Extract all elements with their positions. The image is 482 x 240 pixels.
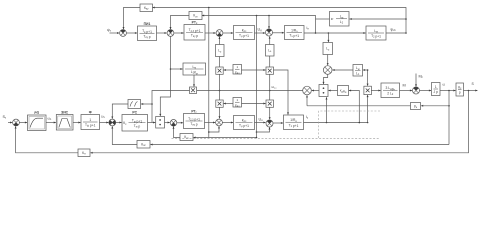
svg-text:Тм p: Тм p <box>134 124 141 129</box>
block Kot1 current sensor gain <box>189 12 202 20</box>
svg-text:ψ2х: ψ2х <box>391 28 397 33</box>
block KdRy gain <box>338 86 349 96</box>
wire X3 east branch down into R2 top <box>274 70 290 115</box>
block inverse Evc lower <box>233 98 242 108</box>
wire X3 down across omega line to X4 <box>269 74 271 100</box>
wire X1 down across omega line to X2 <box>219 74 221 100</box>
wire M line into torque sum <box>400 90 413 92</box>
block inverse Evc upper <box>233 65 242 75</box>
wire speed feedback line into Kos <box>150 144 449 146</box>
svg-text:1: 1 <box>89 118 91 122</box>
block Kpch1 converter x <box>234 26 255 40</box>
block torque constant 3Lm pn over 2L2 <box>381 83 400 98</box>
svg-text:Тиу p: Тиу p <box>190 122 197 127</box>
wire Evc1 east into X3 <box>242 69 266 71</box>
svg-text:РТг: РТг <box>191 110 196 115</box>
multiplier block X4 <box>266 100 274 107</box>
svg-text:ЗИС: ЗИС <box>61 111 69 115</box>
wire branch into L4 bottom <box>208 126 220 133</box>
svg-text:РС: РС <box>132 111 137 115</box>
block Ktg position sensor gain <box>78 149 90 157</box>
svg-text:ψз: ψз <box>107 28 111 33</box>
block RP position regulator <box>28 111 47 131</box>
wire omega riser into Ml bottom <box>306 95 308 106</box>
wire ML output down into X5 top <box>193 75 195 87</box>
multiplier block X3 <box>266 67 274 74</box>
wire omega tap down into pn block riser <box>448 91 450 145</box>
block PI1 flux regulator <box>138 22 157 41</box>
block Kiu flux sensor gain <box>140 4 153 12</box>
summing junction M torque <box>413 87 420 94</box>
block Kos speed sensor gain <box>137 141 150 149</box>
svg-text:Тв p+1: Тв p+1 <box>142 29 152 34</box>
svg-text:Uд: Uд <box>258 28 263 33</box>
wire Evc1 west into X1 <box>224 69 233 71</box>
multiplier block X1 <box>216 67 223 74</box>
wire pn output west along omega-e line <box>307 105 411 107</box>
wire R2 output i_y line <box>304 122 369 124</box>
multiplier circle Mu <box>323 66 332 75</box>
wire S1 to PI1 <box>126 32 137 34</box>
summing junction S3 emf comp x <box>216 30 223 37</box>
block RT1 current x regulator <box>184 21 205 41</box>
svg-text:1: 1 <box>435 85 437 89</box>
svg-text:Sз: Sз <box>3 115 7 120</box>
summing junction L5 voltage y <box>266 120 273 127</box>
wire RT2 to L4 <box>205 122 216 124</box>
svg-text:Тм p+1: Тм p+1 <box>132 119 142 124</box>
wire omega to Kp block <box>440 90 456 92</box>
block J inertia integrator <box>432 83 441 96</box>
wire Le2 up into S4 bottom <box>269 36 271 44</box>
multiplier block X2 <box>216 100 223 107</box>
svg-text:Т1 p+1: Т1 p+1 <box>289 123 299 128</box>
divider block Du <box>319 85 328 97</box>
wire D2 to L3 <box>165 122 170 124</box>
wire ix feedback line into Kot1 <box>202 15 316 34</box>
svg-text:2 L2: 2 L2 <box>387 91 394 96</box>
svg-text:Тиу p: Тиу p <box>191 33 198 38</box>
block ZIS intensity setter <box>56 111 73 131</box>
block kr Lm over L2 <box>330 12 350 27</box>
wire Le1 up into S3 bottom <box>219 37 221 45</box>
wire RP to ZIS <box>46 122 56 124</box>
wire RS to divider D2 <box>148 122 156 124</box>
wire S2 bottom down to divider D2 top <box>159 36 171 116</box>
wire iy branch up into divider Du bottom <box>326 97 328 122</box>
block speed limiter above RS <box>128 100 141 109</box>
wire Le3 to multiplier Mu top <box>327 55 329 66</box>
multiplier block Xm torque <box>364 86 372 94</box>
wire Evc2 east into X4 <box>242 103 266 105</box>
svg-text:РП: РП <box>34 111 39 115</box>
wire Kot2 input line from riser 256 <box>193 137 256 139</box>
wire Kot1 output into S2 top <box>170 16 190 30</box>
wire omega line west from Ml to multiplier X5 <box>197 90 303 92</box>
summing junction L4 emf comp y <box>216 119 223 126</box>
wire tap into limiter block <box>141 103 152 105</box>
wire iy riser into KdRy <box>349 90 359 124</box>
wire Ktg output into L1 bottom <box>15 126 78 153</box>
block pn pole pairs <box>411 103 421 110</box>
wire branch into L5 bottom <box>256 127 271 133</box>
svg-text:ωз: ωз <box>101 115 105 120</box>
wire long riser from current fb line <box>256 16 258 139</box>
block ML Lm over L2Km <box>183 63 206 75</box>
block Le2 leakage inductance y <box>266 45 275 57</box>
svg-text:М: М <box>403 84 406 88</box>
wire Sz input <box>8 122 12 124</box>
block Le3 leakage inductance <box>323 43 333 55</box>
wire Kpch1 to S4 with Ud label <box>255 32 266 34</box>
wire F to L2 <box>100 122 109 124</box>
wire Mu output into divider Du top <box>323 74 328 84</box>
wire R1 output i_x line to T2 block <box>304 32 366 34</box>
wire L2 to RS <box>116 122 122 124</box>
wire KdRy output into Du <box>328 90 337 92</box>
wire L3 to RT2 <box>177 122 183 124</box>
summing junction L2 speed error <box>109 119 116 126</box>
wire psi_z input <box>110 32 120 34</box>
block R2 stator circuit y <box>284 115 304 130</box>
svg-text:Uя: Uя <box>259 118 264 123</box>
wire L4 to Kpch2 <box>222 122 233 124</box>
wire Xm output into torque const block <box>371 90 380 92</box>
block R1 stator circuit x <box>285 26 305 40</box>
svg-text:Тэ p+1: Тэ p+1 <box>289 34 299 39</box>
wire T2 output psi2x to riser <box>386 32 407 34</box>
wire RT1 to S3 <box>205 32 216 34</box>
summing junction S1 flux error <box>120 30 127 37</box>
wire S3 to Kpch1 <box>223 32 233 34</box>
block Lm over L1 <box>353 65 363 77</box>
svg-text:Тиу p: Тиу p <box>143 34 150 39</box>
divider block D2 <box>156 117 165 129</box>
dashed boundary extension west <box>172 137 381 139</box>
svg-text:p: p <box>459 91 461 95</box>
wire tap from LmL1 line down into Xm top <box>367 69 369 86</box>
summing junction S4 voltage x <box>266 29 273 36</box>
svg-text:Тμ p+1: Тμ p+1 <box>239 124 249 129</box>
svg-text:Ф: Ф <box>89 111 92 115</box>
wire Kpch2 to L5 with Uy label <box>255 122 266 124</box>
wire limiter output into L2 top <box>111 104 128 119</box>
block Kpch2 converter y <box>234 116 255 130</box>
wire flux feedback top line from Psi2x node to Kiu <box>153 7 407 34</box>
summing junction L3 current y error <box>170 120 177 127</box>
svg-text:⊳: ⊳ <box>331 17 334 21</box>
multiplier block X5 on omega line <box>190 87 197 94</box>
wire S2 to RT1 <box>174 32 184 34</box>
wire iy riser up into Xm bottom <box>367 95 369 123</box>
svg-text:Тф p+1: Тф p+1 <box>85 123 96 128</box>
block RS speed regulator <box>122 111 148 132</box>
wire iy riser tap into LmL1 block <box>363 69 368 71</box>
wire Evc2 west into X2 <box>224 103 233 105</box>
block RT2 current y regulator <box>184 110 205 129</box>
wire ZIS to F <box>73 122 81 124</box>
block F filter <box>81 111 100 130</box>
multiplier circle Ml <box>303 86 312 95</box>
wire Du output into multiplier Ml <box>312 90 319 92</box>
wire kr output to ix riser <box>316 18 330 20</box>
svg-text:РТс: РТс <box>192 21 198 26</box>
wire flux tap into ML block <box>171 68 183 70</box>
wire Le2 to X3 multiplier <box>269 56 271 67</box>
svg-text:ПИ1: ПИ1 <box>144 22 151 26</box>
svg-text:Т2,3 p+1: Т2,3 p+1 <box>189 28 201 33</box>
wire psi2x branch into kr block <box>350 18 407 20</box>
svg-text:Евц: Евц <box>235 70 240 75</box>
wire Kiu output into S1 top <box>123 8 141 30</box>
block Le1 leakage inductance x <box>216 45 225 57</box>
wire Le1 to X1 multiplier <box>219 57 221 68</box>
wire X4 down into L5 top <box>269 107 271 119</box>
svg-text:Евц: Евц <box>235 103 240 108</box>
wire S4 to R1 <box>273 32 285 34</box>
dashed boundary motor model box <box>319 111 380 138</box>
svg-text:Тμ p+1: Тμ p+1 <box>239 34 249 39</box>
wire Kos output into L2 bottom <box>111 126 137 144</box>
block Kot2 current sensor gain y <box>180 134 193 141</box>
wire riser from top line down to Kot2 line <box>208 8 210 138</box>
svg-text:Т2,3 p+1: Т2,3 p+1 <box>188 117 200 122</box>
wire X2 down into L4 top <box>219 107 221 118</box>
wire Mc load torque input <box>415 74 417 87</box>
wire PI1 to S2 <box>157 32 167 34</box>
svg-text:Т2 p+1: Т2 p+1 <box>371 34 381 39</box>
wire ix branch down to Le3 <box>327 33 329 42</box>
wire M sum to J integrator <box>420 90 432 92</box>
wire LmL1 output into Mu <box>332 69 353 71</box>
svg-text:ω1: ω1 <box>48 117 53 122</box>
summing junction S2 flux-current error <box>167 30 174 37</box>
wire omega line west of X5 down to RS output node <box>151 91 189 123</box>
wire branch down into S4 top <box>268 16 270 29</box>
wire L1 to RP <box>19 122 27 124</box>
summing junction L1 position error <box>13 119 20 126</box>
wire S output <box>464 90 478 92</box>
svg-text:J p: J p <box>434 90 439 94</box>
block T2 rotor flux model <box>366 26 386 40</box>
wire L5 to R2 <box>273 122 283 124</box>
wire Kot2 output into L3 bottom <box>173 127 181 138</box>
block Ks over p position integrator <box>456 83 464 96</box>
wire position feedback line into Ktg <box>90 91 468 154</box>
wire pn input from riser <box>421 105 449 107</box>
